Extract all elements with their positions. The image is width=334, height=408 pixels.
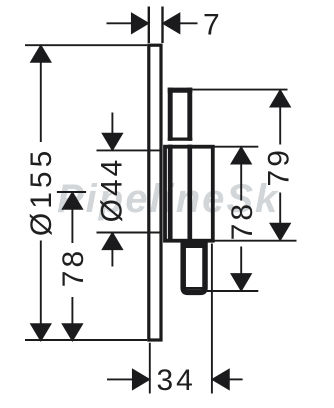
svg-text:79: 79 [262, 147, 295, 186]
dim Ø155: up arrow [31, 46, 50, 62]
dim Ø44: upper tail [111, 113, 113, 136]
dim 34: right tail [228, 378, 243, 380]
dim 7: left tail line [107, 22, 134, 24]
dim 7: right arrow [163, 14, 179, 33]
dim 78 right: line upper segment [240, 164, 242, 201]
dim Ø155: top extension line [25, 44, 147, 46]
dim Ø44: up arrow (outside, below bottom line) [103, 233, 122, 249]
handle knob top edge [168, 88, 193, 93]
dim 78 right: up arrow [232, 148, 251, 164]
dim 78 right: bottom extension line [183, 290, 258, 292]
escutcheon plate (side view) [149, 45, 161, 340]
dim 78 right: down arrow [232, 274, 251, 290]
svg-text:7: 7 [203, 9, 220, 42]
dim 34: left arrow [133, 370, 149, 389]
dim 78 left: line upper segment [71, 208, 73, 243]
svg-text:78: 78 [226, 201, 259, 240]
dim 7: right tail line [179, 22, 198, 24]
dim 79: up arrow [271, 91, 290, 107]
dim 7: extension line left [148, 7, 150, 44]
svg-text:34: 34 [157, 364, 196, 397]
dim 34: left tail [107, 378, 134, 380]
dim Ø44: top extension line [97, 149, 163, 151]
dim 34: right extension line [211, 244, 213, 394]
dim Ø155: line upper segment [40, 61, 42, 142]
dim 79: down arrow [271, 224, 290, 240]
svg-text:Ø44: Ø44 [95, 157, 128, 223]
dim 79: top extension line [192, 89, 287, 91]
dim 78 right: line lower segment [240, 247, 242, 275]
handle knob bottom edge [168, 137, 193, 140]
dim 78 left: top extension line [57, 191, 86, 193]
dim 34: right arrow [213, 370, 229, 389]
dim 78 left: up arrow [63, 193, 82, 209]
dim Ø44: down arrow (outside, above top line) [103, 134, 122, 150]
dim Ø155: down arrow [31, 324, 50, 340]
handle stem right line [187, 145, 192, 241]
handle stem left line [168, 145, 173, 241]
handle knob left edge [168, 88, 173, 141]
dim Ø155: line lower segment [40, 241, 42, 326]
dim 7: left arrow [132, 14, 148, 33]
dim 79: bottom extension line [214, 240, 296, 242]
dim Ø44: lower tail [111, 249, 113, 267]
handle knob right edge [187, 88, 192, 141]
dim 7: extension line right [161, 7, 163, 44]
svg-text:78: 78 [57, 248, 90, 287]
dim 78 right: top extension line [214, 146, 258, 148]
dim 78 left: line lower segment [71, 297, 73, 324]
dim 79: line upper segment [279, 106, 281, 145]
dim 34: left extension line [149, 343, 151, 394]
dim 78 left: down arrow [63, 324, 82, 340]
dim Ø155: bottom extension line [25, 339, 147, 341]
svg-text:Ø155: Ø155 [25, 147, 58, 236]
bottom spout block (rounded bottom corners) [183, 245, 205, 292]
sleeve (valve escutcheon cylinder) [165, 147, 213, 241]
dim Ø44: bottom extension line [97, 232, 163, 234]
dim 79: line lower segment [279, 193, 281, 225]
block bottom seam [184, 287, 206, 290]
